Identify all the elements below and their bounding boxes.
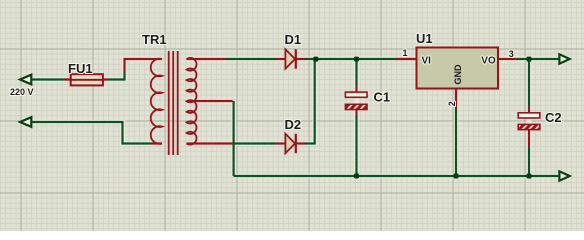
svg-text:VI: VI <box>422 55 432 66</box>
svg-text:C1: C1 <box>374 90 391 105</box>
svg-text:3: 3 <box>509 49 514 59</box>
svg-text:FU1: FU1 <box>68 61 93 76</box>
svg-text:TR1: TR1 <box>142 32 167 47</box>
svg-text:U1: U1 <box>416 31 433 46</box>
svg-text:GND: GND <box>453 64 463 85</box>
svg-text:1: 1 <box>403 48 408 58</box>
svg-text:VO: VO <box>481 55 496 66</box>
svg-text:C2: C2 <box>545 110 562 125</box>
svg-text:D2: D2 <box>285 117 302 132</box>
svg-text:2: 2 <box>447 101 457 106</box>
svg-text:220 V: 220 V <box>10 87 34 97</box>
svg-text:D1: D1 <box>285 32 302 47</box>
